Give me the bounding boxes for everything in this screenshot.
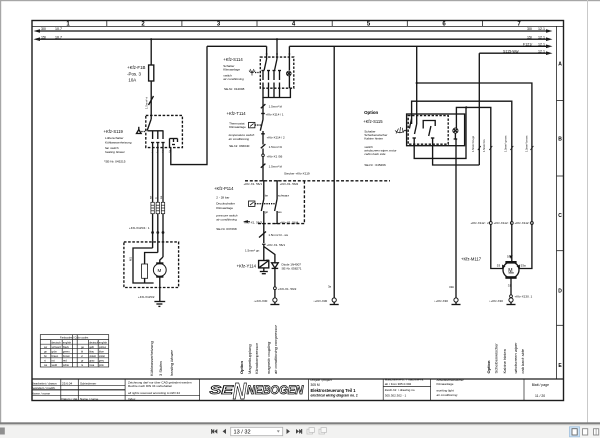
svg-text:beändert / modifi.: beändert / modifi. (32, 386, 56, 390)
terminal X1 56/1 (262, 243, 266, 245)
wires X112 to motor M117 (491, 224, 503, 268)
svg-text:SE-Nr. 037268: SE-Nr. 037268 (216, 227, 237, 231)
M115 internal resistor (142, 264, 148, 278)
svg-text:sw: sw (150, 196, 153, 199)
svg-text:+Kfz-S119: +Kfz-S119 (104, 129, 124, 134)
svg-text:+Kfz-P114: +Kfz-P114 (214, 186, 234, 191)
magnetic clutch Y114 (259, 261, 269, 268)
svg-text:+Kfz-X114 / 1: +Kfz-X114 / 1 (266, 112, 284, 116)
wire to M117 terminal 1 (417, 83, 532, 222)
svg-text:+Kfz-X112 : 1: +Kfz-X112 : 1 (515, 221, 534, 225)
svg-text:blue: blue (99, 350, 104, 354)
switch S114 actuator (250, 69, 254, 76)
svg-text:grau: grau (89, 359, 95, 363)
svg-text:deutsch: deutsch (52, 340, 62, 344)
svg-text:black: black (63, 345, 70, 349)
switch S114 enclosure (260, 57, 294, 88)
svg-text:windscreen wiper: windscreen wiper (513, 342, 518, 374)
svg-text:+Kfz-X1. 56/1: +Kfz-X1. 56/1 (244, 182, 263, 186)
wire P114 down (263, 224, 265, 243)
svg-text:Kabine hinten: Kabine hinten (502, 349, 507, 373)
svg-text:Kühlwasserheizung: Kühlwasserheizung (149, 341, 154, 376)
svg-text:grün: grün (52, 350, 58, 354)
svg-text:violet: violet (99, 354, 105, 358)
svg-text:12.1: 12.1 (538, 49, 545, 53)
svg-text:violett: violett (89, 354, 96, 358)
svg-text:SE-Nr. 036040: SE-Nr. 036040 (229, 144, 250, 148)
terminal X114 pin 1 (261, 113, 265, 115)
wire F121 to mid ground (333, 46, 335, 297)
wires S119 to resistors (152, 148, 154, 203)
svg-text:+Kfz-X114 / 2: +Kfz-X114 / 2 (267, 136, 285, 140)
net F121 bus wire (207, 43, 553, 49)
switch S115 enclosure (407, 114, 465, 146)
wire F121 left segment down to S114 (266, 46, 268, 59)
node tap bus 15 for S114 (276, 38, 278, 40)
cable markers right risers (471, 135, 528, 152)
resistor R2 heater stage (156, 202, 159, 213)
svg-text:N: N (233, 378, 247, 404)
svg-text:Name / name: Name / name (80, 397, 99, 401)
svg-text:rosa: rosa (89, 363, 95, 367)
svg-text:air conditioning compressor: air conditioning compressor (273, 324, 278, 374)
svg-text:rt: rt (154, 197, 158, 199)
svg-text:*SE-Nr. 045215: *SE-Nr. 045215 (104, 159, 126, 163)
svg-text:+Kfz-X115/2: +Kfz-X115/2 (138, 295, 155, 299)
svg-text:+Kfz-X112 : 2: +Kfz-X112 : 2 (471, 221, 490, 225)
svg-text:+Kfz-X1. 56/2: +Kfz-X1. 56/2 (280, 182, 299, 186)
svg-text:heating blower: heating blower (169, 349, 174, 376)
svg-text:↓+Kfz-X30: ↓+Kfz-X30 (313, 299, 327, 303)
pressure switch P114 sensor box (249, 201, 255, 206)
svg-text:ab / from 305.0.302: ab / from 305.0.302 (385, 382, 412, 386)
svg-text:rot: rot (52, 359, 55, 363)
svg-text:M1: M1 (129, 257, 133, 261)
collector wire under S114 (263, 88, 290, 97)
svg-text:english: english (99, 340, 108, 344)
svg-text:A: A (558, 62, 562, 68)
svg-text:Druckschalter: Druckschalter (216, 201, 235, 205)
pressure switch P114 labels (214, 186, 238, 231)
svg-text:Scheibenwischer: Scheibenwischer (493, 343, 498, 374)
SENNEBOGEN logo (210, 378, 304, 404)
svg-text:air conditioning: air conditioning (229, 137, 250, 141)
svg-text:Index: Index (128, 397, 136, 401)
svg-text:air conditioning: air conditioning (223, 77, 244, 81)
svg-text:S115-Wa/: S115-Wa/ (503, 49, 519, 53)
net 15 bus wire (34, 35, 553, 41)
wire diode to ground (274, 268, 276, 286)
svg-text:deutsch: deutsch (89, 340, 99, 344)
svg-text:white: white (63, 363, 70, 367)
svg-text:F121/: F121/ (523, 43, 532, 47)
svg-text:pink: pink (99, 363, 104, 367)
svg-text:12.1: 12.1 (538, 35, 545, 39)
svg-text:53a: 53a (507, 255, 512, 259)
svg-text:+Kfz-X1. 56/2: +Kfz-X1. 56/2 (278, 287, 297, 291)
svg-text:cab back side: cab back side (520, 348, 525, 373)
thermostat T114 contact (260, 120, 263, 131)
lamp in S114 (287, 71, 292, 76)
svg-text:brown: brown (63, 354, 71, 358)
svg-text:working light: working light (437, 389, 454, 393)
svg-text:Klimaanlage: Klimaanlage (437, 382, 454, 386)
heater symbol in S115 (453, 128, 458, 133)
svg-text:1.5mm² bn-gn: 1.5mm² bn-gn (471, 135, 475, 152)
svg-text:+Kfz-S115: +Kfz-S115 (363, 119, 383, 124)
resistor R1 heater stage (151, 202, 154, 213)
switch S114 contacts (262, 59, 282, 88)
svg-text:10.7: 10.7 (55, 35, 62, 39)
svg-text:bn: bn (265, 193, 269, 197)
wire fuse to S119 (150, 81, 152, 115)
wire F121 riser to S115 (416, 46, 418, 124)
svg-text:green: green (63, 350, 70, 354)
svg-text:D: D (558, 289, 562, 295)
resistor R3 heater stage (161, 202, 164, 213)
wires resistors to M115 (152, 214, 154, 242)
svg-text:Maschinen-Nr.: / machine-Nr.: Maschinen-Nr.: / machine-Nr. (385, 377, 425, 381)
thermostat T114 labels (227, 111, 255, 148)
M115 internal wires (152, 242, 154, 248)
svg-text:gr: gr (81, 359, 83, 363)
svg-text:↓+Kfz-X30: ↓+Kfz-X30 (489, 299, 503, 303)
svg-text:1.5mm² rt: 1.5mm² rt (145, 97, 149, 109)
svg-text:air conditioning: air conditioning (437, 393, 458, 397)
wire F121 right segment down to S114 lamp (288, 46, 290, 70)
ground X30 under M117 (509, 298, 513, 302)
svg-text:gelb: gelb (89, 345, 94, 349)
svg-text:Rechte nach DIN 34 vorbehalten: Rechte nach DIN 34 vorbehalten (128, 384, 173, 388)
switch S115 contacts (409, 119, 435, 146)
svg-text:Option: Option (486, 360, 491, 373)
svg-text:305 M: 305 M (311, 383, 320, 387)
wire S114 to T114 (262, 98, 264, 120)
diode V1 1N4007 (272, 263, 279, 268)
terminal row X112 (489, 222, 492, 225)
svg-text:15/: 15/ (41, 35, 46, 39)
svg-text:30/: 30/ (41, 27, 46, 31)
svg-text:+Kfz-X130. 1: +Kfz-X130. 1 (515, 295, 533, 299)
wiper actuator icon (395, 127, 405, 134)
ground X30 mid (332, 298, 336, 302)
svg-text:12.1: 12.1 (538, 27, 545, 31)
svg-text:12.1: 12.1 (538, 43, 545, 47)
inline connector X1/56 (262, 154, 265, 157)
toolbar (0, 422, 600, 438)
svg-text:↓+Kfz-X30: ↓+Kfz-X30 (434, 299, 448, 303)
svg-text:10A: 10A (128, 77, 136, 82)
svg-text:+Kfz-T114: +Kfz-T114 (227, 111, 247, 116)
svg-text:+Kfz-X1 /56: +Kfz-X1 /56 (267, 154, 283, 158)
wires X119 to P114 (263, 181, 265, 199)
svg-text:Option: Option (364, 110, 378, 115)
svg-text:sw: sw (44, 346, 47, 349)
wire M115 to ground (159, 276, 161, 301)
toolbar page number box (231, 427, 283, 435)
svg-text:11 / 20: 11 / 20 (535, 394, 545, 398)
color code table (40, 335, 108, 367)
svg-text:1.5mm² bl - ws: 1.5mm² bl - ws (268, 233, 288, 237)
connector X119 dashed boundary (245, 180, 390, 182)
svg-text:electrical wiring diagram no.: electrical wiring diagram no. 1 (311, 394, 358, 398)
svg-text:C: C (558, 213, 562, 219)
ground X30 clutch (273, 298, 277, 302)
svg-text:10.7: 10.7 (55, 27, 62, 31)
node tap on bus 15 (150, 38, 152, 40)
switch S114 labels (223, 57, 244, 91)
svg-text:all rights reserved according: all rights reserved according to DIN 34 (128, 391, 180, 395)
ground X30 wiper return (454, 298, 458, 302)
svg-text:15/: 15/ (527, 35, 532, 39)
svg-text:Projekt / project: Projekt / project (311, 378, 332, 382)
svg-text:3a: 3a (328, 285, 332, 289)
terminal X114 pin 2 (261, 133, 265, 135)
pressure switch P114 contacts (261, 199, 264, 211)
svg-text:13 / 32: 13 / 32 (234, 429, 251, 435)
svg-text:+Kfz-X112 : 4: +Kfz-X112 : 4 (494, 221, 513, 225)
svg-text:Kühlwasserheizung: Kühlwasserheizung (105, 140, 132, 144)
thermostat T114 sensor box (249, 122, 255, 127)
svg-text:heating blower: heating blower (105, 150, 126, 154)
cable marker 1.5mm2 bl (261, 164, 266, 168)
svg-text:braun: braun (52, 354, 59, 358)
svg-text:Elektrosteuerung Teil 1: Elektrosteuerung Teil 1 (311, 388, 357, 393)
net S115-Wa bus wire (479, 49, 552, 55)
svg-text:Schiedemer: Schiedemer (80, 381, 96, 385)
svg-text:1.5mm² bl: 1.5mm² bl (269, 164, 283, 168)
svg-text:SE-Nr. 014008: SE-Nr. 014008 (224, 87, 245, 91)
schematic sheet frame (32, 21, 564, 404)
switch S119 actuator (137, 130, 142, 134)
wire M117 to ground (510, 279, 512, 295)
chassis ground M115 (154, 301, 165, 303)
toolbar next-page button (287, 429, 290, 434)
svg-text:Option: Option (239, 361, 244, 374)
wire S115 lamp node to M117 terminal 2 (456, 107, 490, 221)
svg-text:schwarz: schwarz (278, 193, 290, 197)
motor M115 (153, 264, 166, 277)
net 30 bus wire (34, 27, 553, 33)
svg-text:+Kfz-Y114: +Kfz-Y114 (237, 264, 257, 269)
cable marker 1.5mm2 bl (261, 144, 266, 148)
switch S115 labels (363, 110, 397, 167)
wire S119 to F121 riser (171, 46, 207, 164)
wire S115-Wa drop (478, 53, 480, 165)
svg-text:+Kfz-M117: +Kfz-M117 (461, 257, 482, 262)
svg-text:Lüfterschalter: Lüfterschalter (105, 136, 123, 140)
svg-text:30/: 30/ (527, 27, 532, 31)
svg-text:2 - 28 bar: 2 - 28 bar (216, 195, 229, 199)
svg-text:3 Stufen: 3 Stufen (158, 361, 163, 376)
svg-text:yellow: yellow (99, 345, 106, 349)
toolbar page-layout buttons right (570, 427, 580, 437)
svg-text:1.5mm² bl: 1.5mm² bl (269, 105, 283, 109)
svg-text:rt: rt (44, 359, 46, 363)
svg-text:schwarz: schwarz (52, 345, 62, 349)
toolbar history buttons disabled (307, 428, 326, 434)
fuse F1B (149, 65, 154, 81)
svg-text:air conditioning: air conditioning (216, 218, 237, 222)
svg-text:Arbeitsscheinwerfer: Arbeitsscheinwerfer (437, 378, 464, 382)
wire color labels (150, 195, 163, 199)
svg-text:+Kfz-S114: +Kfz-S114 (223, 57, 243, 62)
wire S115 contact to M117 terminal 4 (412, 101, 512, 221)
switch S119 enclosure (146, 115, 183, 147)
svg-text:red: red (63, 359, 67, 363)
svg-text:1.5mm² bn: 1.5mm² bn (482, 139, 486, 152)
svg-text:B: B (558, 137, 562, 143)
svg-text:-Pos. 3: -Pos. 3 (127, 72, 141, 77)
svg-text:SE-Nr. 058271: SE-Nr. 058271 (282, 266, 302, 270)
svg-text:cabin back side: cabin back side (364, 152, 385, 156)
connector X119 dashed return (258, 223, 304, 225)
svg-text:Blatt / page: Blatt / page (532, 383, 549, 387)
svg-text:Farbcodes / Color codes: Farbcodes / Color codes (60, 336, 89, 340)
wiper motor M117 (503, 262, 519, 278)
svg-text:1.5mm² gn-ws: 1.5mm² gn-ws (504, 135, 508, 152)
svg-text:weiß: weiß (52, 363, 58, 367)
svg-text:+Kfz-X1. 56/1: +Kfz-X1. 56/1 (267, 243, 286, 247)
svg-text:Magnetkupplung: Magnetkupplung (247, 344, 252, 374)
svg-text:53a: 53a (521, 264, 526, 268)
svg-text:ws: ws (278, 210, 282, 214)
toolbar prev-page button (223, 429, 226, 434)
svg-text:Zeich-Nr. / drawing no: Zeich-Nr. / drawing no (385, 388, 415, 392)
svg-text:+Kfz-F1B: +Kfz-F1B (127, 65, 145, 70)
switch S119 labels (104, 129, 132, 163)
svg-text:grey: grey (99, 359, 105, 363)
svg-text:Klimaanlage: Klimaanlage (229, 125, 246, 129)
svg-text:1.5mm² bl: 1.5mm² bl (269, 145, 283, 149)
svg-text:M: M (158, 268, 162, 273)
blower motor M115 enclosure (124, 242, 179, 288)
svg-text:↓+Kfz-X30: ↓+Kfz-X30 (253, 299, 267, 303)
toolbar last-page button (296, 429, 302, 434)
svg-text:Name / name: Name / name (32, 392, 51, 396)
cable marker 1.5mm2 bl (261, 104, 266, 108)
svg-text:Datum / dat.: Datum / dat. (62, 397, 79, 401)
toolbar first-page button (211, 429, 217, 434)
svg-text:Kabine hinten: Kabine hinten (364, 136, 383, 140)
switch S119 pin numbers (151, 150, 170, 154)
switch S119 contacts (147, 115, 177, 147)
svg-text:Klimaanlage: Klimaanlage (216, 206, 233, 210)
svg-text:Stecker +Kfz-X119: Stecker +Kfz-X119 (284, 172, 310, 176)
svg-text:Klimaanlage: Klimaanlage (223, 67, 240, 71)
wire S115 to wiper ground (455, 140, 457, 298)
svg-text:1.5mm² gn: 1.5mm² gn (245, 249, 260, 253)
svg-text:blau: blau (89, 350, 94, 354)
function labels rotated (149, 324, 525, 376)
svg-text:31b: 31b (449, 285, 454, 289)
svg-text:Bearbeitet / drawn: Bearbeitet / drawn (32, 381, 57, 385)
wire S115 pin to S115-Wa drop (433, 146, 480, 165)
svg-text:+Kfz-X115/4 : 1: +Kfz-X115/4 : 1 (129, 226, 150, 230)
wire bus 15 to fuse (150, 39, 152, 65)
svg-text:NEBOGEN: NEBOGEN (247, 385, 304, 397)
svg-text:Klimakompressor: Klimakompressor (254, 342, 259, 374)
svg-text:SE-Nr : 045266: SE-Nr : 045266 (364, 163, 386, 167)
svg-text:gn: gn (265, 210, 269, 214)
wire split to Y114 and diode (263, 244, 265, 260)
svg-text:53: 53 (497, 264, 501, 268)
svg-text:1.5mm² bn-ws: 1.5mm² bn-ws (525, 135, 529, 152)
svg-text:25.6.04: 25.6.04 (62, 381, 72, 385)
svg-text:english: english (63, 340, 72, 344)
wire S115 pin to lamp riser (414, 107, 466, 158)
svg-text:305.302.302 - 1: 305.302.302 - 1 (385, 393, 407, 397)
cable marker 1.5mm2 rt (149, 96, 154, 105)
svg-text:SE: SE (210, 385, 234, 397)
svg-text:magnetic coupling: magnetic coupling (266, 341, 271, 374)
